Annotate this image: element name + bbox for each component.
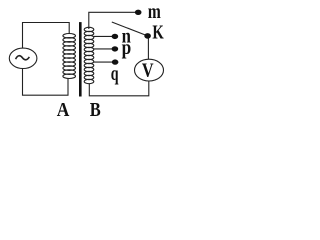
svg-text:K: K xyxy=(152,21,164,43)
wire primary bottom xyxy=(23,68,69,95)
tap q dot xyxy=(112,59,119,64)
AC tilde xyxy=(16,56,30,60)
tap wire p xyxy=(94,48,113,50)
wire primary top xyxy=(23,23,70,49)
svg-text:A: A xyxy=(57,99,70,121)
wire K to voltmeter xyxy=(147,36,149,59)
tap p dot xyxy=(112,46,119,51)
voltmeter V xyxy=(135,59,164,81)
transformer core xyxy=(79,22,82,96)
tap wire q xyxy=(94,61,113,63)
svg-text:m: m xyxy=(148,1,161,23)
svg-text:p: p xyxy=(122,37,132,59)
tap n dot xyxy=(112,34,119,39)
AC source G1 xyxy=(9,48,37,68)
secondary coil B xyxy=(84,27,94,83)
svg-text:B: B xyxy=(90,99,101,121)
primary coil A xyxy=(63,34,76,79)
svg-text:V: V xyxy=(142,59,154,81)
contact m dot xyxy=(135,10,142,15)
contact K dot xyxy=(144,33,151,39)
wire voltmeter bottom xyxy=(89,81,149,96)
svg-text:q: q xyxy=(111,63,119,85)
wire secondary top to m xyxy=(89,12,136,29)
switch blade K xyxy=(112,22,148,36)
tap wire n xyxy=(94,35,113,37)
